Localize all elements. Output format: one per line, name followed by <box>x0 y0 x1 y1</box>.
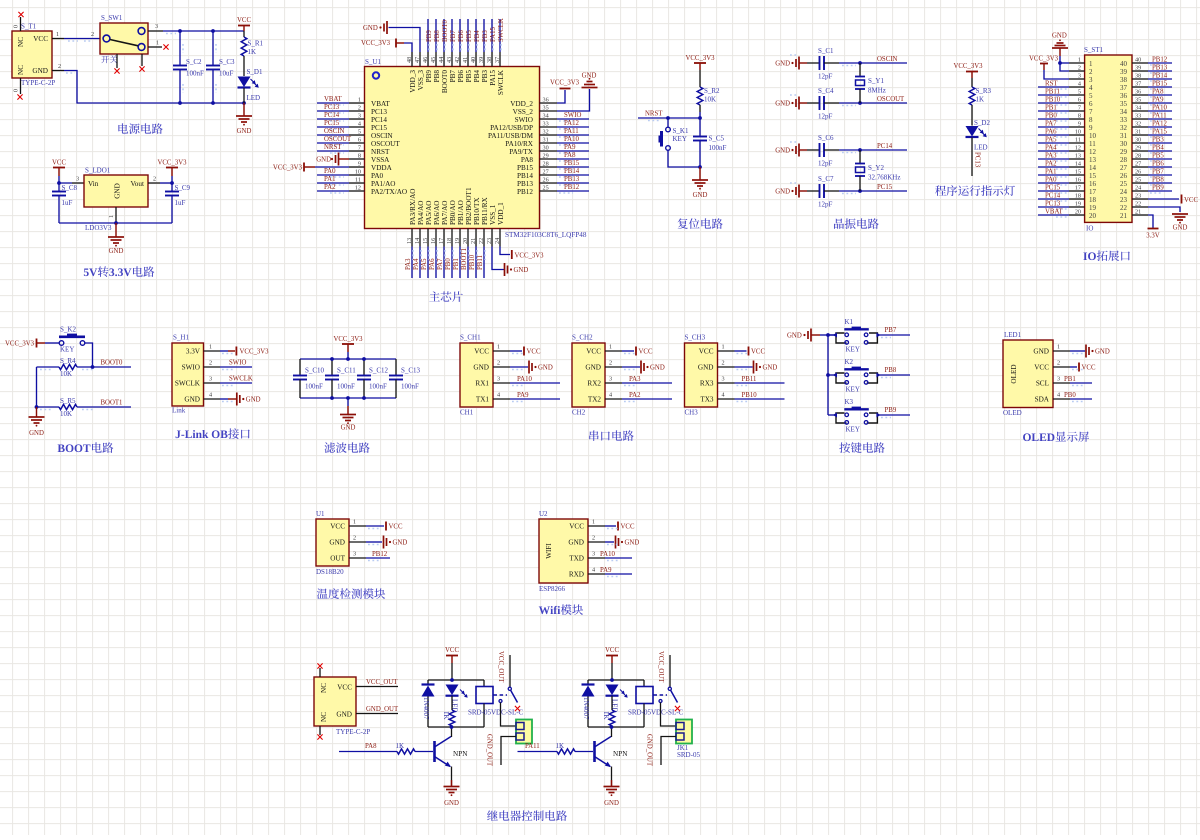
svg-text:1K: 1K <box>442 711 450 720</box>
svg-text:OSCOUT: OSCOUT <box>371 140 400 148</box>
svg-text:VCC_3V3: VCC_3V3 <box>515 253 545 260</box>
svg-text:10K: 10K <box>60 410 72 418</box>
svg-text:SRD-05VDC-SL-C: SRD-05VDC-SL-C <box>628 709 684 717</box>
svg-text:PB8: PB8 <box>1152 177 1164 184</box>
svg-text:PB9: PB9 <box>1152 185 1164 192</box>
svg-text:S_C12: S_C12 <box>369 367 389 375</box>
svg-text:GND_OUT: GND_OUT <box>646 734 653 767</box>
svg-text:NRST: NRST <box>324 144 342 151</box>
svg-text:26: 26 <box>1120 172 1128 180</box>
svg-text:12: 12 <box>1089 148 1097 156</box>
svg-text:OSCIN: OSCIN <box>371 132 393 140</box>
svg-text:2: 2 <box>722 360 725 367</box>
svg-text:GND: GND <box>775 101 790 108</box>
svg-text:RXD: RXD <box>569 571 584 579</box>
svg-text:PA9: PA9 <box>600 567 612 574</box>
svg-text:PB11/RX: PB11/RX <box>481 196 489 225</box>
svg-text:21: 21 <box>1120 212 1128 220</box>
svg-text:VCC_3V3: VCC_3V3 <box>953 63 983 70</box>
svg-text:KEY: KEY <box>846 426 860 434</box>
svg-text:PA7/AO: PA7/AO <box>441 201 449 226</box>
svg-text:28: 28 <box>1135 153 1141 160</box>
svg-text:PB12: PB12 <box>1152 57 1168 64</box>
svg-text:31: 31 <box>1135 129 1141 136</box>
svg-text:3: 3 <box>209 376 212 383</box>
svg-text:PA2: PA2 <box>324 184 336 191</box>
svg-text:GND: GND <box>787 333 802 340</box>
svg-text:VCC: VCC <box>605 647 619 654</box>
svg-text:PB3: PB3 <box>1152 137 1164 144</box>
svg-text:37: 37 <box>494 57 501 63</box>
svg-text:GND: GND <box>32 67 48 75</box>
svg-text:VSS_2: VSS_2 <box>513 108 534 116</box>
svg-text:10uF: 10uF <box>219 70 234 78</box>
svg-text:3: 3 <box>609 376 612 383</box>
svg-text:S_U1: S_U1 <box>365 58 381 66</box>
svg-text:U1: U1 <box>316 510 325 518</box>
svg-text:PB15: PB15 <box>517 164 533 172</box>
svg-text:12: 12 <box>1075 145 1081 152</box>
svg-text:1: 1 <box>358 97 361 104</box>
svg-text:GND: GND <box>329 539 345 547</box>
svg-text:1K: 1K <box>556 742 565 750</box>
svg-text:TYPE-C-2P: TYPE-C-2P <box>21 79 55 87</box>
svg-text:100nF: 100nF <box>709 144 727 152</box>
svg-text:NC: NC <box>320 712 328 722</box>
svg-text:3: 3 <box>76 176 79 183</box>
svg-text:PA12: PA12 <box>1152 121 1167 128</box>
svg-text:VCC: VCC <box>621 524 635 531</box>
svg-text:7: 7 <box>1078 105 1081 112</box>
svg-text:GND: GND <box>237 128 252 135</box>
svg-text:PB1: PB1 <box>453 258 460 270</box>
svg-text:37: 37 <box>1120 84 1128 92</box>
svg-text:3: 3 <box>155 23 158 30</box>
svg-text:44: 44 <box>438 57 445 63</box>
svg-text:PA10: PA10 <box>564 136 579 143</box>
svg-text:PA11: PA11 <box>525 743 540 750</box>
svg-text:S_Y2: S_Y2 <box>868 164 884 172</box>
svg-text:S_ST1: S_ST1 <box>1084 46 1104 54</box>
svg-text:36: 36 <box>1120 92 1128 100</box>
svg-text:11: 11 <box>1089 140 1096 148</box>
svg-text:GND: GND <box>341 425 356 432</box>
svg-text:24: 24 <box>494 238 501 244</box>
svg-text:32.768KHz: 32.768KHz <box>868 174 900 182</box>
svg-text:GND: GND <box>114 183 122 199</box>
svg-text:PA9/TX: PA9/TX <box>509 148 534 156</box>
svg-text:GND: GND <box>184 396 200 404</box>
svg-text:38: 38 <box>1135 73 1141 80</box>
svg-text:35: 35 <box>1135 97 1141 104</box>
svg-text:4: 4 <box>609 392 612 399</box>
svg-text:PB0: PB0 <box>1045 113 1057 120</box>
svg-text:1: 1 <box>353 519 356 526</box>
svg-text:2: 2 <box>91 31 94 38</box>
svg-text:VCC: VCC <box>586 348 601 356</box>
svg-text:PB15: PB15 <box>564 160 580 167</box>
svg-text:PB0: PB0 <box>1064 392 1076 399</box>
svg-text:9: 9 <box>358 161 361 168</box>
svg-text:LED: LED <box>247 94 261 102</box>
svg-text:PB6: PB6 <box>457 70 465 83</box>
svg-text:PB6: PB6 <box>1152 161 1164 168</box>
svg-text:21: 21 <box>470 238 477 244</box>
svg-text:SWCLK: SWCLK <box>175 380 201 388</box>
svg-text:NRST: NRST <box>371 148 390 156</box>
svg-text:8: 8 <box>1078 113 1081 120</box>
svg-text:VDD_1: VDD_1 <box>497 202 505 225</box>
svg-text:KEY: KEY <box>60 346 74 354</box>
svg-text:PA4/AO: PA4/AO <box>417 201 425 226</box>
svg-text:NRST: NRST <box>645 111 663 118</box>
svg-text:S_C13: S_C13 <box>401 367 421 375</box>
svg-text:S_C2: S_C2 <box>186 58 202 66</box>
svg-text:PB14: PB14 <box>517 172 533 180</box>
svg-text:PA3: PA3 <box>405 258 412 270</box>
svg-text:38: 38 <box>1120 76 1128 84</box>
svg-text:S_Y1: S_Y1 <box>868 77 884 85</box>
svg-text:PC13: PC13 <box>974 152 981 168</box>
svg-text:OUT: OUT <box>330 555 345 563</box>
svg-text:PB14: PB14 <box>1152 73 1168 80</box>
svg-text:25: 25 <box>1135 177 1141 184</box>
svg-text:28: 28 <box>1120 156 1128 164</box>
svg-text:4: 4 <box>209 392 212 399</box>
svg-text:PB12: PB12 <box>564 184 580 191</box>
svg-text:PC15: PC15 <box>371 124 387 132</box>
svg-text:GND: GND <box>1033 348 1049 356</box>
svg-text:PC15: PC15 <box>877 184 893 191</box>
svg-text:SWIO: SWIO <box>229 360 246 367</box>
svg-text:1: 1 <box>722 344 725 351</box>
svg-text:3.3V: 3.3V <box>1146 233 1159 240</box>
svg-text:PB7: PB7 <box>885 327 897 334</box>
svg-text:PC15: PC15 <box>324 120 340 127</box>
svg-text:PB10/TX: PB10/TX <box>473 197 481 225</box>
svg-text:17: 17 <box>1075 185 1081 192</box>
svg-text:VSSA: VSSA <box>371 156 390 164</box>
svg-text:PB1: PB1 <box>1045 105 1057 112</box>
svg-text:GND: GND <box>582 73 597 80</box>
svg-text:PB11: PB11 <box>742 376 757 383</box>
svg-text:PB10: PB10 <box>742 392 758 399</box>
svg-text:SWCLK: SWCLK <box>229 376 253 383</box>
svg-text:17: 17 <box>438 238 445 244</box>
svg-text:SWIO: SWIO <box>564 112 581 119</box>
svg-text:PA3/RX/AO: PA3/RX/AO <box>409 189 417 225</box>
svg-text:1K: 1K <box>602 711 610 720</box>
svg-text:GND: GND <box>514 267 529 274</box>
svg-text:VCC_3V3: VCC_3V3 <box>273 165 303 172</box>
svg-text:Vout: Vout <box>131 180 144 188</box>
svg-text:VCC: VCC <box>474 348 489 356</box>
svg-text:SDA: SDA <box>1035 396 1050 404</box>
svg-text:VBAT: VBAT <box>324 96 343 103</box>
svg-text:11: 11 <box>1075 137 1081 144</box>
svg-text:34: 34 <box>1135 105 1141 112</box>
svg-text:PC13: PC13 <box>1045 201 1061 208</box>
svg-text:2: 2 <box>353 535 356 542</box>
svg-text:39: 39 <box>478 57 485 63</box>
svg-text:PB7: PB7 <box>450 30 457 42</box>
svg-text:S_D2: S_D2 <box>974 119 990 127</box>
svg-text:13: 13 <box>1075 153 1081 160</box>
svg-text:10: 10 <box>355 169 361 176</box>
svg-text:PA6/AO: PA6/AO <box>433 201 441 226</box>
svg-text:34: 34 <box>1120 108 1128 116</box>
svg-text:S_CH2: S_CH2 <box>572 334 593 342</box>
svg-text:GND: GND <box>336 711 352 719</box>
svg-text:GND: GND <box>1052 33 1067 40</box>
svg-text:PB8: PB8 <box>885 367 897 374</box>
svg-text:VDD_2: VDD_2 <box>510 100 533 108</box>
svg-text:WIFI: WIFI <box>545 543 553 559</box>
svg-text:31: 31 <box>1120 132 1128 140</box>
svg-text:K1: K1 <box>845 318 854 326</box>
svg-text:0: 0 <box>13 89 20 92</box>
svg-text:100nF: 100nF <box>369 383 387 391</box>
svg-text:SWCLK: SWCLK <box>497 69 505 95</box>
svg-text:PB5: PB5 <box>1152 153 1164 160</box>
svg-text:PB7: PB7 <box>1152 169 1164 176</box>
svg-text:BOOT0: BOOT0 <box>442 19 449 42</box>
svg-text:PB13: PB13 <box>1152 65 1168 72</box>
svg-text:PA5: PA5 <box>1045 137 1057 144</box>
svg-text:GND: GND <box>775 61 790 68</box>
svg-text:S_R5: S_R5 <box>60 397 76 405</box>
svg-text:1N4007: 1N4007 <box>582 697 590 720</box>
svg-text:PA1: PA1 <box>324 176 335 183</box>
svg-text:4: 4 <box>592 567 595 574</box>
svg-text:2: 2 <box>358 105 361 112</box>
svg-text:46: 46 <box>422 57 429 63</box>
svg-text:PB1/AO: PB1/AO <box>457 200 465 225</box>
svg-text:PA8: PA8 <box>365 743 377 750</box>
svg-text:GND: GND <box>625 540 640 547</box>
svg-text:PC14: PC14 <box>1045 193 1061 200</box>
svg-text:PA10: PA10 <box>517 376 532 383</box>
svg-text:0: 0 <box>13 25 20 28</box>
svg-text:VSS_1: VSS_1 <box>489 204 497 225</box>
svg-text:3: 3 <box>1089 76 1093 84</box>
svg-text:RST: RST <box>1045 81 1058 88</box>
svg-text:33: 33 <box>1135 113 1141 120</box>
svg-text:2: 2 <box>497 360 500 367</box>
svg-text:100nF: 100nF <box>305 383 323 391</box>
svg-text:38: 38 <box>486 57 493 63</box>
svg-text:VCC: VCC <box>445 647 459 654</box>
svg-text:BOOT1: BOOT1 <box>101 400 123 407</box>
svg-text:GND: GND <box>363 25 378 32</box>
svg-text:4: 4 <box>1089 84 1093 92</box>
svg-text:SWIO: SWIO <box>515 116 533 124</box>
svg-text:VCC: VCC <box>1082 365 1096 372</box>
svg-text:DS18B20: DS18B20 <box>316 568 344 576</box>
svg-text:OLED: OLED <box>1003 409 1022 417</box>
svg-text:VCC: VCC <box>699 348 714 356</box>
svg-text:PB5: PB5 <box>465 70 473 83</box>
svg-text:GND: GND <box>246 397 261 404</box>
svg-text:S_SW1: S_SW1 <box>101 14 123 22</box>
svg-text:31: 31 <box>543 137 549 144</box>
svg-text:GND: GND <box>693 192 708 199</box>
svg-text:CH3: CH3 <box>685 409 699 417</box>
svg-text:S_T1: S_T1 <box>21 23 37 31</box>
svg-text:42: 42 <box>454 57 461 63</box>
svg-text:PB0: PB0 <box>445 258 452 270</box>
svg-text:PB13: PB13 <box>564 176 580 183</box>
svg-text:3: 3 <box>592 551 595 558</box>
svg-text:GND: GND <box>775 148 790 155</box>
svg-text:29: 29 <box>543 153 549 160</box>
svg-text:GND: GND <box>393 540 408 547</box>
svg-text:RX3: RX3 <box>700 380 714 388</box>
svg-text:GND: GND <box>29 430 44 437</box>
svg-text:22: 22 <box>1135 201 1141 208</box>
svg-text:10K: 10K <box>704 96 716 104</box>
svg-text:PA15: PA15 <box>1152 129 1167 136</box>
svg-text:19: 19 <box>454 238 461 244</box>
svg-text:1: 1 <box>56 31 59 38</box>
svg-text:27: 27 <box>1135 161 1141 168</box>
svg-text:18: 18 <box>446 238 453 244</box>
svg-text:PA9: PA9 <box>1152 97 1164 104</box>
svg-text:1N4007: 1N4007 <box>422 697 430 720</box>
svg-text:S_CH3: S_CH3 <box>685 334 706 342</box>
svg-text:S_CH1: S_CH1 <box>460 334 481 342</box>
svg-text:PB14: PB14 <box>564 168 580 175</box>
svg-text:2: 2 <box>153 176 156 183</box>
svg-text:19: 19 <box>1075 201 1081 208</box>
svg-text:2: 2 <box>1078 65 1081 72</box>
svg-text:TX1: TX1 <box>476 396 490 404</box>
svg-text:PA7: PA7 <box>1045 121 1057 128</box>
svg-text:1K: 1K <box>976 96 985 104</box>
svg-text:3: 3 <box>353 551 356 558</box>
svg-text:100nF: 100nF <box>337 383 355 391</box>
svg-text:PC14: PC14 <box>371 116 387 124</box>
svg-text:11: 11 <box>355 177 361 184</box>
svg-text:GND: GND <box>1095 349 1110 356</box>
svg-text:PB9: PB9 <box>885 407 897 414</box>
svg-text:PB4: PB4 <box>474 30 481 42</box>
svg-text:1uF: 1uF <box>62 199 73 207</box>
svg-text:GND_OUT: GND_OUT <box>366 706 399 713</box>
svg-text:VCC: VCC <box>389 524 403 531</box>
svg-text:IO: IO <box>1086 225 1093 233</box>
svg-text:1: 1 <box>209 344 212 351</box>
svg-text:PC14: PC14 <box>877 143 893 150</box>
svg-text:35: 35 <box>543 105 549 112</box>
svg-text:Link: Link <box>172 407 186 415</box>
svg-text:OSCOUT: OSCOUT <box>324 136 352 143</box>
svg-text:LED1: LED1 <box>1004 331 1022 339</box>
svg-text:48: 48 <box>406 57 413 63</box>
svg-text:33: 33 <box>1120 116 1128 124</box>
svg-text:S_R2: S_R2 <box>704 87 720 95</box>
svg-text:1: 1 <box>497 344 500 351</box>
svg-text:S_R4: S_R4 <box>60 357 76 365</box>
svg-text:PA15: PA15 <box>490 27 497 42</box>
svg-text:19: 19 <box>1089 204 1097 212</box>
svg-text:NC: NC <box>17 65 25 75</box>
svg-text:RX2: RX2 <box>587 380 601 388</box>
svg-text:PA11: PA11 <box>564 128 579 135</box>
svg-text:U2: U2 <box>539 510 548 518</box>
svg-text:8MHz: 8MHz <box>868 87 886 95</box>
svg-text:S_C5: S_C5 <box>709 135 725 143</box>
svg-text:26: 26 <box>1135 169 1141 176</box>
svg-text:28: 28 <box>543 161 549 168</box>
svg-text:SRD-05: SRD-05 <box>677 751 700 759</box>
svg-text:PA3: PA3 <box>1045 153 1057 160</box>
svg-text:VBAT: VBAT <box>1045 209 1064 216</box>
svg-text:14: 14 <box>414 238 421 244</box>
svg-text:PA4: PA4 <box>413 258 420 270</box>
svg-text:GND: GND <box>444 800 459 807</box>
svg-text:S_C7: S_C7 <box>818 175 834 183</box>
svg-text:3: 3 <box>1078 73 1081 80</box>
svg-text:29: 29 <box>1120 148 1128 156</box>
svg-text:GND: GND <box>604 800 619 807</box>
svg-text:1: 1 <box>1078 57 1081 64</box>
svg-text:VCC_3V3: VCC_3V3 <box>550 80 580 87</box>
svg-text:GND: GND <box>775 189 790 196</box>
svg-text:PB11: PB11 <box>1045 89 1060 96</box>
svg-text:PC13: PC13 <box>371 108 387 116</box>
svg-text:36: 36 <box>1135 89 1141 96</box>
svg-text:PA11/USB/DM: PA11/USB/DM <box>488 132 534 140</box>
svg-text:25: 25 <box>1120 180 1128 188</box>
svg-text:32: 32 <box>543 129 549 136</box>
svg-text:PB0/AO: PB0/AO <box>449 200 457 225</box>
svg-text:16: 16 <box>430 238 437 244</box>
svg-text:8: 8 <box>358 153 361 160</box>
svg-text:10: 10 <box>1075 129 1081 136</box>
svg-text:BOOT0: BOOT0 <box>441 70 449 94</box>
svg-text:OSCIN: OSCIN <box>877 56 897 63</box>
svg-text:1: 1 <box>592 519 595 526</box>
svg-text:1K: 1K <box>396 742 405 750</box>
svg-text:S_C9: S_C9 <box>175 184 191 192</box>
svg-text:PC14: PC14 <box>324 112 340 119</box>
svg-text:34: 34 <box>543 113 549 120</box>
svg-text:GND: GND <box>109 248 124 255</box>
svg-text:S_H1: S_H1 <box>173 334 189 342</box>
svg-text:K2: K2 <box>845 358 854 366</box>
svg-text:VCC_3V3: VCC_3V3 <box>685 55 715 62</box>
svg-text:OSCOUT: OSCOUT <box>877 96 905 103</box>
svg-text:12pF: 12pF <box>818 73 833 81</box>
svg-text:VCC_OUT: VCC_OUT <box>366 679 398 686</box>
svg-text:VCC: VCC <box>52 160 66 167</box>
svg-text:PB13: PB13 <box>517 180 533 188</box>
svg-text:PA12: PA12 <box>564 120 579 127</box>
svg-text:40: 40 <box>1135 57 1141 64</box>
svg-text:S_C1: S_C1 <box>818 47 834 55</box>
svg-text:KEY: KEY <box>846 386 860 394</box>
svg-text:PA4: PA4 <box>1045 145 1057 152</box>
svg-text:S_K2: S_K2 <box>60 326 76 334</box>
svg-text:PA0: PA0 <box>324 168 336 175</box>
svg-text:14: 14 <box>1075 161 1081 168</box>
svg-text:23: 23 <box>1135 193 1141 200</box>
svg-text:OLED: OLED <box>1010 364 1018 383</box>
svg-text:30: 30 <box>543 145 549 152</box>
svg-text:K3: K3 <box>845 398 854 406</box>
svg-text:5: 5 <box>1078 89 1081 96</box>
